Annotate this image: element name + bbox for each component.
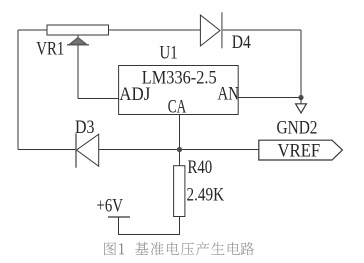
wire R40 bottom lead [119,217,180,235]
wire top to VR1 [18,29,47,31]
svg-text:D4: D4 [232,31,251,52]
svg-text:GND2: GND2 [277,117,318,138]
power +6V symbol [108,216,130,218]
node junction main [177,147,182,152]
svg-text:R40: R40 [188,156,213,177]
node junction at GND2 [298,95,303,100]
resistor R40 [174,166,185,217]
wire right vertical down to GND node [300,30,302,98]
ground GND2 symbol [296,98,307,114]
wire D3 to VREF [99,149,259,151]
wire D4 cathode to top-right corner [222,29,301,31]
svg-text:ADJ: ADJ [119,83,150,104]
svg-text:U1: U1 [160,42,178,63]
svg-text:VR1: VR1 [36,38,64,59]
potentiometer VR1 [47,25,109,45]
wire D3 net left segment [18,149,76,151]
wire wiper to U1 ADJ pin [78,98,119,100]
IC U1 box [119,66,239,115]
wire U1 CA pin down to node [179,115,181,150]
svg-text:VREF: VREF [278,140,321,161]
svg-text:+6V: +6V [97,195,124,216]
caption 图1 基准电压产生电路 [104,242,254,255]
wire VR1 wiper down [77,45,79,99]
net flag VREF [259,140,343,160]
wire left vertical [17,30,19,150]
diode D3 [76,133,99,167]
svg-text:LM336-2.5: LM336-2.5 [142,66,217,87]
wire VR1 to D4 anode [109,29,201,31]
svg-text:2.49K: 2.49K [187,184,225,205]
wire node down to R40 [179,150,181,166]
wire U1 AN pin to GND node [238,97,301,99]
svg-text:CA: CA [168,95,187,117]
svg-text:AN: AN [218,83,239,104]
svg-text:D3: D3 [75,116,95,138]
diode D4 [200,12,222,48]
